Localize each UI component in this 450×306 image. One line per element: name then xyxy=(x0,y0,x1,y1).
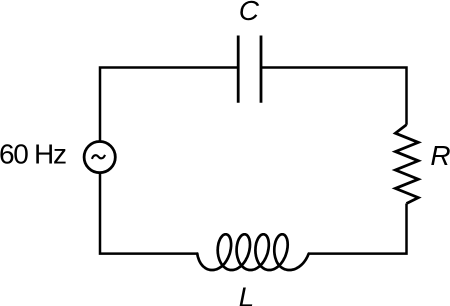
svg-text:L: L xyxy=(239,282,255,306)
svg-text:60 Hz: 60 Hz xyxy=(0,139,66,170)
wire left lower and bottom-left segment xyxy=(100,173,197,253)
svg-text:C: C xyxy=(239,0,260,26)
AC source sine (~) symbol xyxy=(92,155,105,159)
capacitor C right plate xyxy=(260,36,263,103)
svg-text:R: R xyxy=(430,140,450,171)
resistor R zigzag xyxy=(395,125,418,204)
wire top-right segment and right wire upper xyxy=(261,68,407,125)
capacitor C left plate xyxy=(237,36,240,103)
AC source circle xyxy=(84,142,115,173)
inductor L coil xyxy=(197,234,308,270)
wire bottom-right segment and right wire lower xyxy=(309,204,407,254)
wire top-left segment and left wire upper xyxy=(100,68,238,141)
